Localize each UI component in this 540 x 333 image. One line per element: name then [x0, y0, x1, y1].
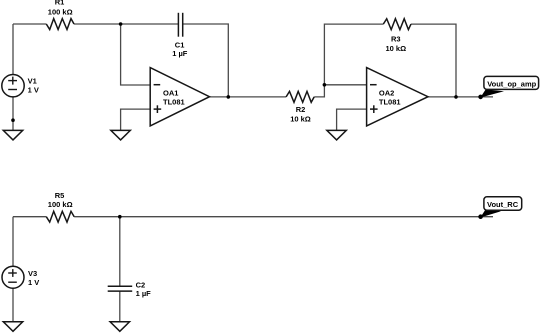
- svg-text:R1: R1: [55, 0, 65, 6]
- svg-text:V1: V1: [28, 76, 37, 85]
- svg-text:10 kΩ: 10 kΩ: [290, 114, 311, 123]
- svg-text:R5: R5: [55, 191, 65, 200]
- svg-text:C1: C1: [175, 40, 185, 49]
- svg-text:100 kΩ: 100 kΩ: [48, 7, 73, 16]
- svg-text:Vout_op_amp: Vout_op_amp: [487, 79, 536, 88]
- svg-text:1 µF: 1 µF: [136, 289, 152, 298]
- svg-text:1 V: 1 V: [28, 86, 39, 95]
- svg-text:10 kΩ: 10 kΩ: [385, 44, 406, 53]
- svg-text:100 kΩ: 100 kΩ: [48, 200, 73, 209]
- svg-text:V3: V3: [28, 269, 37, 278]
- svg-text:TL081: TL081: [163, 98, 185, 107]
- svg-text:TL081: TL081: [379, 98, 401, 107]
- svg-text:1 µF: 1 µF: [172, 49, 188, 58]
- svg-text:OA2: OA2: [379, 89, 394, 98]
- svg-text:R2: R2: [296, 105, 306, 114]
- svg-text:R3: R3: [391, 34, 401, 43]
- svg-text:1 V: 1 V: [28, 278, 39, 287]
- svg-text:Vout_RC: Vout_RC: [487, 200, 519, 209]
- svg-text:OA1: OA1: [163, 89, 178, 98]
